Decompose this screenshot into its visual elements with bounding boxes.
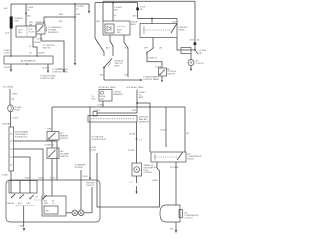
svg-text:14 BLK: 14 BLK — [152, 180, 159, 182]
ignition switch housing — [6, 180, 100, 222]
wire coil feed x136.5 — [128, 122, 143, 163]
wire relay to compressor — [175, 162, 177, 205]
heater control switch S4 — [47, 132, 59, 141]
label ignition coil — [144, 164, 154, 174]
label HOT AT ALL TIMES right — [127, 86, 145, 89]
wire battery feed upper — [10, 4, 12, 17]
fuse F5 column — [136, 90, 146, 114]
wire fuse block bottom — [2, 171, 11, 180]
svg-text:CIRCUIT: CIRCUIT — [86, 185, 95, 187]
wire engine harness rectangle — [97, 153, 160, 207]
wire grommet to fuse block — [3, 112, 20, 127]
svg-text:AMP: AMP — [139, 96, 144, 99]
svg-text:14 BLK: 14 BLK — [160, 130, 167, 132]
svg-text:16 RED 14: 16 RED 14 — [45, 145, 55, 147]
circuit breaker CB1 — [99, 90, 112, 102]
connector block C1 — [181, 48, 191, 54]
svg-text:RED: RED — [59, 14, 64, 16]
svg-text:1 RED: 1 RED — [12, 94, 18, 96]
svg-text:SWITCH: SWITCH — [61, 156, 69, 158]
svg-text:J2: J2 — [29, 46, 31, 48]
svg-text:IGN: IGN — [27, 203, 31, 205]
svg-text:REG: REG — [18, 32, 23, 34]
svg-text:SWITCH: SWITCH — [60, 138, 68, 140]
labels under clutch relay — [151, 167, 179, 169]
svg-text:LINK: LINK — [14, 20, 19, 22]
terminal block TB1 — [93, 112, 97, 117]
label TO IGNITION CONTROL MODULE — [92, 137, 107, 142]
wire link to alternator — [10, 29, 12, 57]
switch position labels — [8, 197, 39, 206]
svg-text:ACC: ACC — [18, 202, 23, 205]
AC clutch relay box — [151, 152, 186, 162]
horn connector symbol — [188, 54, 194, 66]
wire fuse block out 2 — [14, 149, 44, 195]
wire bus L1 top left — [11, 3, 89, 5]
svg-text:RED: RED — [76, 14, 81, 16]
svg-text:SYSTEM: SYSTEM — [144, 172, 152, 174]
wire AC switch output arrow — [161, 76, 163, 82]
wire manifold left drop x52 — [48, 107, 53, 132]
wire L2 right drop to battery bus — [133, 3, 146, 19]
wire housing entry 3 — [10, 180, 12, 193]
svg-text:FUSE: FUSE — [15, 110, 21, 112]
svg-text:14 DBL: 14 DBL — [129, 134, 136, 136]
svg-text:INDICATOR: INDICATOR — [48, 31, 59, 34]
svg-text:1 BLK: 1 BLK — [189, 40, 195, 42]
wire compressor ground — [170, 222, 177, 233]
label TO HEATER SYSTEM — [75, 164, 87, 170]
wire L3 left drop x103 — [102, 1, 104, 21]
label FUSIBLE LINK — [14, 18, 23, 22]
svg-text:1 RED: 1 RED — [82, 176, 88, 178]
battery B1 — [140, 24, 177, 38]
label AC clutch relay — [188, 153, 203, 161]
wire ammeter bottom run — [37, 34, 66, 73]
wire blower switch down — [51, 159, 53, 197]
wire alternator output lower run — [3, 86, 18, 105]
svg-text:CLUTCH: CLUTCH — [196, 63, 204, 65]
wire diagonal to label — [195, 50, 207, 55]
fuse block FB1 — [9, 127, 14, 171]
label ignition switch feed — [29, 22, 33, 26]
svg-text:ALTERNATOR: ALTERNATOR — [21, 60, 36, 63]
accessory contact block — [42, 196, 66, 216]
lamp L1 — [72, 210, 78, 216]
svg-text:14 BLK: 14 BLK — [12, 118, 19, 120]
svg-text:16 BLK: 16 BLK — [34, 42, 41, 44]
diode assembly D1 — [103, 21, 130, 35]
wire heater branch x81 — [81, 170, 89, 210]
label AC control switch — [167, 68, 177, 76]
label heater control switch — [60, 132, 68, 140]
svg-text:HOT AT ALL: HOT AT ALL — [3, 86, 15, 89]
switch wafer contacts — [11, 194, 47, 200]
wire ignition switch ground — [20, 206, 26, 232]
wire manifold drop x166 — [160, 107, 167, 147]
svg-text:BLK/TAN: BLK/TAN — [3, 123, 12, 126]
label ballast resistor — [139, 117, 149, 124]
label TO CHARGING SYSTEM INDICATOR — [46, 26, 62, 34]
wire main right x195 — [189, 1, 200, 50]
svg-text:SWITCH: SWITCH — [43, 47, 51, 49]
wire main feed x75 — [74, 3, 84, 66]
svg-text:14 DBL: 14 DBL — [128, 150, 135, 152]
AC control switch S3 — [159, 68, 167, 76]
labels above alternator — [30, 51, 46, 54]
wire diode bottom right — [124, 35, 129, 77]
wire regulator to alternator — [29, 37, 42, 56]
svg-text:12 RED: 12 RED — [97, 105, 104, 107]
svg-text:14 LG: 14 LG — [50, 178, 56, 180]
label starter relay — [179, 26, 188, 32]
wire diode bottom left — [106, 35, 113, 56]
svg-text:DGRN 14: DGRN 14 — [149, 58, 158, 60]
svg-text:14 BLK: 14 BLK — [38, 178, 45, 180]
label fuse block — [15, 131, 29, 139]
label ignition switch — [115, 61, 124, 68]
svg-text:14 BLK: 14 BLK — [151, 167, 158, 169]
svg-text:BREAKER: BREAKER — [114, 93, 124, 96]
wire L2 left drop x95 — [95, 3, 104, 56]
svg-text:16 GRN: 16 GRN — [42, 68, 50, 70]
svg-text:CONTROL PANEL: CONTROL PANEL — [143, 78, 160, 81]
label circuit breaker — [114, 92, 124, 97]
svg-text:4 ORN: 4 ORN — [4, 53, 11, 55]
wire manifold right edge x185 — [185, 107, 190, 152]
wire x92 to lamps — [91, 187, 93, 213]
fusible link F1 — [10, 17, 13, 29]
svg-text:CLUTCH: CLUTCH — [185, 218, 193, 220]
label HOT AT ALL TIMES left — [99, 86, 117, 89]
svg-text:CONTROL MOD: CONTROL MOD — [92, 139, 107, 141]
label ammeter — [36, 21, 46, 24]
svg-text:ASSY: ASSY — [115, 65, 121, 68]
svg-text:AMMETER: AMMETER — [36, 21, 46, 24]
dashed gang line — [16, 200, 42, 206]
label in line fuse — [15, 107, 22, 112]
wire diode feed x113 — [112, 2, 122, 21]
wire label 16 BLK — [4, 50, 11, 55]
wire battery bottom — [144, 38, 163, 50]
inline connector grommet — [8, 105, 14, 112]
svg-text:FUSE BLOCK: FUSE BLOCK — [15, 137, 28, 139]
svg-text:PLUG: PLUG — [29, 32, 35, 34]
wire label 14 BLK lower — [152, 180, 159, 182]
svg-text:HTR: HTR — [44, 203, 49, 205]
label AC compressor clutch — [185, 212, 200, 220]
label diode assy — [131, 22, 138, 27]
svg-text:14 BLK: 14 BLK — [90, 150, 97, 152]
svg-text:CONTROL UNIT: CONTROL UNIT — [40, 78, 55, 80]
svg-text:1 RED: 1 RED — [2, 175, 8, 177]
wire manifold drop x90 — [89, 96, 96, 180]
svg-text:CONTROL PANEL: CONTROL PANEL — [52, 70, 69, 73]
wire alternator output to arrow — [4, 64, 13, 72]
wire bus L2 — [95, 2, 138, 4]
connector header box — [9, 181, 37, 194]
label AC clutch feed — [196, 60, 204, 65]
label TO ELECTRONIC CONTROL UNIT — [40, 76, 56, 80]
ammeter M1 — [36, 24, 45, 34]
svg-text:ASSY: ASSY — [131, 23, 137, 26]
svg-text:RELAY: RELAY — [179, 29, 186, 32]
svg-text:14 DGR: 14 DGR — [4, 67, 12, 69]
wire right branch to bus — [125, 75, 129, 77]
ignition coil T1 — [132, 163, 142, 176]
label blower switch — [61, 150, 70, 158]
label 4 GRN wire — [90, 147, 97, 152]
node label BLK — [4, 8, 8, 10]
wire fuse block out 3 — [14, 157, 31, 180]
wire battery right branch — [177, 38, 194, 51]
wire breaker down — [97, 101, 104, 107]
svg-text:SW: SW — [46, 211, 49, 213]
wire arrow below connector — [190, 66, 192, 72]
wire manifold drop x150 to clutch box — [149, 107, 151, 152]
wire bus L3 — [103, 0, 195, 2]
wire drop with arrow at x89 — [88, 4, 90, 14]
svg-text:BAT A1: BAT A1 — [8, 202, 14, 205]
node label BLK below link — [6, 33, 10, 35]
svg-text:SYSTEM: SYSTEM — [75, 167, 83, 169]
wire run to instrument panel — [104, 79, 143, 81]
ignition switch S1 blade — [103, 59, 112, 69]
wire feed y113 — [94, 110, 138, 113]
AC compressor clutch M2 — [160, 205, 183, 222]
svg-text:4 BLK: 4 BLK — [25, 178, 31, 180]
svg-text:RED: RED — [48, 129, 53, 131]
wire main manifold y107 — [52, 106, 150, 108]
svg-text:HOT AT ALL TIMES: HOT AT ALL TIMES — [99, 86, 117, 89]
wire fuse branch right — [137, 103, 150, 107]
label TO IGNITION SWITCH — [43, 45, 55, 49]
lamp L2 — [78, 210, 84, 216]
wire housing entry 1 — [19, 180, 21, 193]
wire housing entry 2 — [29, 180, 31, 193]
wire between switches — [45, 140, 55, 148]
wire manifold right extension — [150, 106, 185, 108]
switch blade S2 — [146, 48, 154, 54]
wire fuse block out 1 — [14, 141, 58, 180]
blower switch S5 — [47, 148, 59, 159]
wire battery bus y18.5 — [138, 18, 178, 24]
wire ammeter top feed — [44, 14, 75, 24]
svg-text:16 DBL: 16 DBL — [37, 39, 44, 41]
svg-text:16 DGRN: 16 DGRN — [170, 167, 179, 169]
label TO INSTRUMENT CONTROL PANEL — [52, 69, 69, 73]
wire distributor arrow — [135, 186, 137, 194]
svg-text:FLD: FLD — [117, 32, 121, 34]
label TO INSTRUMENT CONTROL PANEL right — [143, 77, 160, 81]
label printed circuit — [86, 183, 95, 188]
wire alternator field down — [42, 64, 50, 73]
wire ignition sense x26 — [25, 4, 34, 26]
alternator G1 — [4, 55, 53, 65]
wire labels row — [25, 178, 56, 180]
svg-text:RELAY: RELAY — [188, 158, 195, 161]
svg-text:RED: RED — [132, 110, 137, 112]
wire coil bottom — [130, 176, 137, 184]
ballast resistor R1 — [88, 116, 137, 123]
svg-text:16 A TR: 16 A TR — [38, 51, 45, 54]
voltage regulator VR1 — [16, 26, 36, 37]
wire to AC switch — [147, 53, 162, 69]
svg-text:RESISTOR: RESISTOR — [139, 122, 149, 124]
wire switch to bus — [100, 68, 104, 80]
svg-text:SWITCH: SWITCH — [167, 74, 175, 76]
svg-text:HOT AT ALL TIMES: HOT AT ALL TIMES — [127, 86, 145, 89]
svg-text:16 BLU: 16 BLU — [94, 110, 101, 112]
wire to lamps — [66, 212, 92, 214]
